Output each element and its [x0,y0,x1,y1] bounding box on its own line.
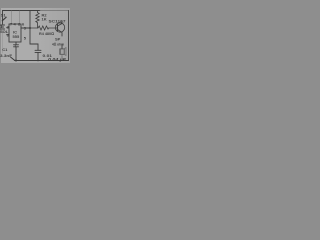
wire top Vcc rail left [3,10,41,12]
transistor Q1 body [55,23,64,32]
svg-text:3.3nF: 3.3nF [0,53,13,58]
wire pin1 to C1 [15,42,17,61]
svg-text:C1: C1 [2,47,8,52]
wire bottom ground rail [15,60,69,62]
wire pin6 stub [7,34,10,36]
resistor R2 [36,11,39,28]
transistor Q1 emitter [58,30,63,37]
IC U1 555 timer [9,24,21,42]
wire pin4 to Vcc [11,11,13,24]
junction pin3 node [29,27,31,29]
transistor Q1 base bar [57,25,59,32]
wire top Vcc rail right [40,10,69,12]
speaker LS1 [60,48,66,56]
junction C2 ground [37,60,39,62]
wire emitter to speaker [61,45,63,50]
resistor R4 [30,26,58,30]
wire diagonal to ground rail [11,57,15,61]
transistor Q1 collector [58,21,63,26]
capacitor C2 plates [35,50,41,52]
junction C1 ground [15,60,17,62]
svg-text:1K: 1K [42,17,47,22]
wire pin2 stub [7,27,10,29]
svg-text:4Ω ohm: 4Ω ohm [52,41,64,46]
svg-text:SC1167: SC1167 [49,18,67,23]
wire right border [68,11,70,61]
battery BT1 [1,25,5,29]
wire left border upper [2,11,4,25]
switch S1 [2,17,6,21]
wire C2 to ground rail [37,52,39,60]
wire pin3 output [21,27,30,29]
wire left border lower [2,30,4,54]
svg-text:555: 555 [13,34,20,39]
svg-text:0.04 µF: 0.04 µF [48,57,66,62]
wire vertical from Vcc to C2 [30,11,38,51]
svg-text:R4 480Ω: R4 480Ω [39,31,54,36]
wire pin8 to Vcc [19,11,21,24]
svg-text:S1: S1 [1,12,7,17]
wire speaker to ground rail [61,56,63,61]
capacitor C1 plates [14,45,19,47]
